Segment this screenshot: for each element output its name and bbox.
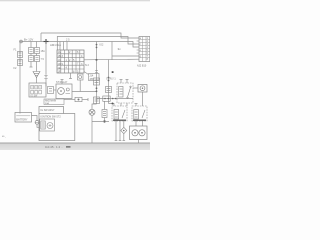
wire top bus 1 to connector row 1: [41, 33, 139, 38]
wire grid out to connector row 8: [84, 58, 139, 61]
relay K dashed box: [112, 106, 127, 121]
node dot: [112, 103, 114, 105]
motor box J: [138, 85, 147, 93]
battery box: [15, 113, 32, 123]
component box on bus 1: [94, 78, 100, 85]
wire stubs into junction grid: [60, 42, 67, 51]
svg-text:1F: 1F: [58, 71, 61, 74]
wire top box left edge: [40, 33, 42, 42]
wire label box to fuse G: [64, 99, 75, 101]
wire bus2 to relay K: [109, 104, 115, 107]
svg-text:1E: 1E: [58, 67, 61, 70]
splice dots on feed: [112, 98, 117, 100]
wire branch to connector row 7: [112, 55, 139, 57]
wire starter output: [72, 91, 97, 93]
relay L dashed box: [132, 106, 147, 121]
wire box J down to relay L: [142, 92, 144, 106]
svg-text:1B: 1B: [58, 55, 61, 58]
relay L terminal bar: [133, 119, 146, 121]
svg-text:** .: ** .: [2, 135, 6, 139]
wire fuse G out: [82, 98, 88, 101]
relay L coil: [134, 110, 139, 120]
svg-text:J/B: J/B: [89, 78, 93, 81]
connector 2pin box on feed: [103, 96, 110, 101]
svg-text:ST RELAY: ST RELAY: [56, 81, 68, 84]
junction tick on bus 1: [96, 59, 98, 61]
svg-text:1A: 1A: [58, 51, 61, 54]
relay I contact: [127, 86, 131, 98]
wire jog to lamp column: [92, 104, 97, 109]
svg-text:IG SW ASSY: IG SW ASSY: [41, 109, 55, 112]
svg-text:2 5: 2 5: [66, 39, 70, 42]
wire relay feed: [97, 98, 134, 100]
connector pair dots on bus 1: [96, 44, 98, 49]
connector block right: [137, 37, 150, 62]
svg-text:A22 B10: A22 B10: [137, 65, 147, 68]
starter motor box: [56, 84, 72, 99]
connector box E: [29, 83, 46, 97]
wire relay I to box J: [133, 87, 138, 89]
wire vertical right drop: [111, 42, 113, 61]
fuse F1: [18, 52, 23, 58]
wire connector drop: [79, 80, 81, 92]
fuse F6: [35, 56, 40, 62]
component box on bus 2: [106, 87, 112, 93]
fuse F2: [18, 60, 23, 66]
relay I coil: [119, 87, 123, 98]
motor box M: [130, 126, 148, 140]
vertical bus mid 1: [96, 42, 98, 105]
relay K contact: [122, 110, 125, 118]
wire junction drop: [45, 42, 47, 87]
wire fuse column drops: [30, 42, 37, 72]
connector dots bus 2: [108, 77, 110, 82]
wire grid feed bus to connector row 3: [57, 37, 139, 51]
wire drop column: [104, 102, 106, 122]
relay I bottom stubs: [121, 103, 127, 106]
fuse F5: [29, 56, 34, 62]
relay L top stub: [135, 104, 138, 107]
svg-text:ST RLY 1: ST RLY 1: [106, 79, 116, 81]
wire lamp branch right: [92, 121, 109, 123]
node battery terminal circle: [35, 120, 39, 124]
wire grid bottom stub: [69, 73, 72, 79]
svg-text:30A: 30A: [45, 102, 49, 105]
relay L bottom stubs: [136, 121, 143, 126]
svg-text:IG SW: IG SW: [31, 95, 39, 97]
relay L contact: [142, 110, 145, 118]
vertical bus mid 2: [108, 60, 110, 104]
wire terminal to ignition box: [37, 124, 39, 127]
lamp L1: [89, 109, 95, 115]
ground chassis triangle: [33, 72, 40, 84]
fuse on drop column: [102, 110, 107, 118]
connector pin stubs: [137, 41, 139, 53]
relay I dashed box: [117, 83, 133, 103]
inner starter unit: [40, 119, 55, 131]
svg-text:IG2: IG2: [100, 44, 105, 47]
left feed vertical wire: [19, 42, 21, 114]
small connector with circle top: [78, 74, 84, 80]
connector ticks on bus 1: [95, 71, 98, 73]
junction block grid J/B: [57, 50, 84, 73]
node main junction cross: [44, 39, 49, 44]
fuse F3: [29, 48, 34, 54]
top page edge strip: [0, 0, 150, 1]
fuse G inline: [75, 97, 82, 101]
connector pair on junction drop: [44, 75, 47, 78]
label box F: [44, 99, 64, 105]
svg-text:IGNITION SW ST2: IGNITION SW ST2: [41, 115, 62, 118]
svg-text:1C: 1C: [58, 59, 61, 62]
svg-text:1D: 1D: [58, 63, 61, 66]
svg-text:N 2: N 2: [85, 64, 90, 67]
relay I top stubs: [120, 80, 129, 84]
svg-text:AM1 IG1: AM1 IG1: [50, 43, 61, 47]
relay K coil: [114, 110, 119, 120]
svg-text:BATTERY: BATTERY: [16, 119, 28, 122]
svg-text:3x: 3x: [118, 47, 122, 51]
stub above starter: [61, 80, 64, 85]
wire grid right-bottom link: [84, 72, 89, 75]
wire main feed bus to connector row 4: [20, 42, 139, 48]
node splice dot: [112, 71, 114, 73]
junction tick on branch: [104, 120, 106, 123]
wire lamp down to band: [91, 115, 93, 143]
connector label box D: [89, 74, 100, 81]
svg-text:B+ 12V: B+ 12V: [24, 38, 33, 42]
fuse F4: [35, 48, 40, 54]
wire battery output: [32, 116, 38, 121]
relay K bottom drops: [115, 121, 125, 141]
fuse on bus 1: [94, 97, 100, 104]
svg-text:0-0.45 . 1 2 ..: 0-0.45 . 1 2 ..: [45, 145, 63, 149]
connector diamond: [121, 127, 127, 133]
svg-text:15A: 15A: [41, 50, 46, 53]
node connector circle left: [20, 40, 23, 43]
bottom gray band: [0, 143, 150, 150]
connector small box: [48, 87, 57, 94]
relay K terminal bar: [113, 119, 126, 121]
wire box M ground: [138, 140, 140, 144]
ignition switch box H stepped outline: [39, 107, 75, 141]
connector pair dots on bus 1 lower: [96, 87, 98, 92]
